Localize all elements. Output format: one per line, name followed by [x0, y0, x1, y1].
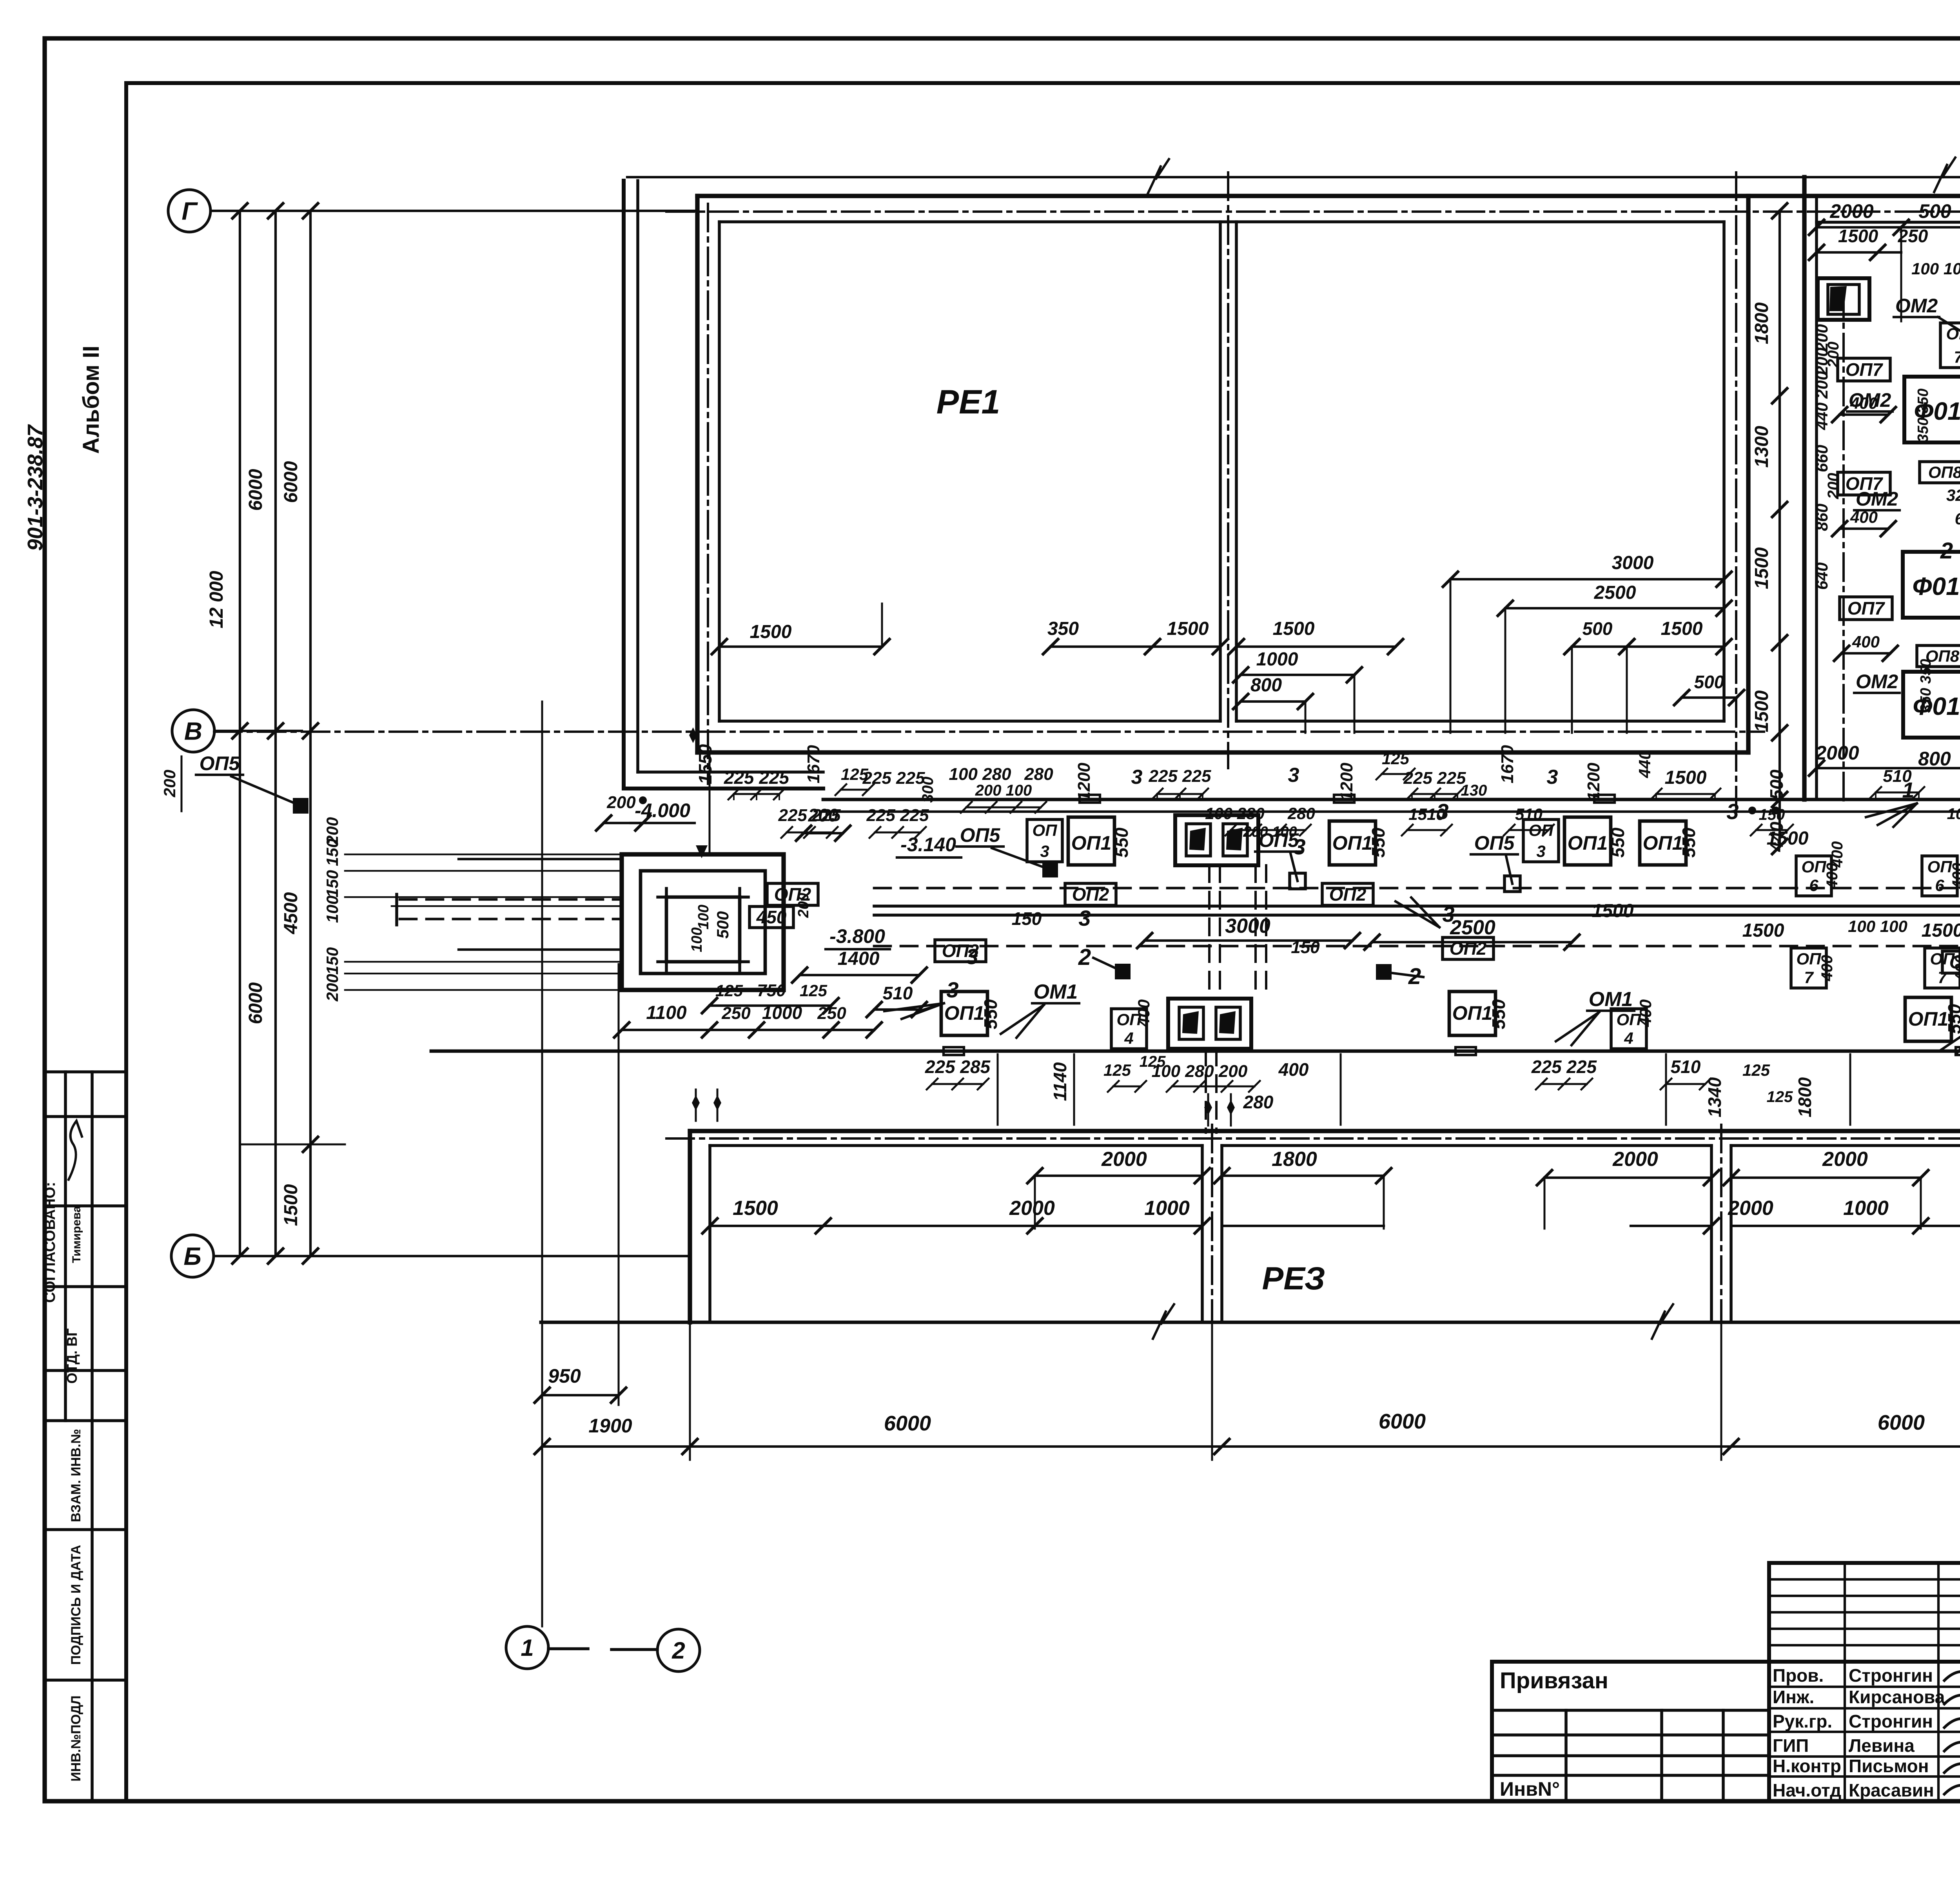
svg-text:РЕ1: РЕ1 — [936, 383, 1000, 421]
svg-text:125: 125 — [1382, 749, 1410, 768]
svg-text:3: 3 — [1078, 906, 1091, 930]
svg-text:1500: 1500 — [281, 1184, 301, 1226]
svg-text:350 350: 350 350 — [1915, 388, 1931, 442]
svg-text:1500: 1500 — [750, 622, 792, 642]
svg-text:200: 200 — [1825, 473, 1842, 500]
svg-text:6000: 6000 — [245, 469, 266, 511]
svg-text:200 100: 200 100 — [975, 782, 1032, 799]
svg-text:1800: 1800 — [1795, 1077, 1815, 1117]
svg-text:640: 640 — [1813, 562, 1831, 590]
svg-text:4: 4 — [1124, 1029, 1133, 1047]
svg-text:130: 130 — [1461, 782, 1487, 799]
svg-text:2000: 2000 — [1822, 1148, 1868, 1171]
svg-text:550: 550 — [1608, 827, 1628, 857]
svg-text:350: 350 — [1047, 618, 1079, 639]
svg-text:150: 150 — [323, 947, 341, 975]
svg-text:Красавин: Красавин — [1849, 1780, 1934, 1800]
svg-text:ОП: ОП — [1797, 950, 1822, 968]
svg-text:800: 800 — [1918, 748, 1951, 770]
svg-text:200: 200 — [323, 974, 341, 1002]
svg-text:200: 200 — [795, 893, 812, 918]
svg-text:1800: 1800 — [1751, 302, 1772, 344]
svg-text:1500: 1500 — [733, 1197, 778, 1220]
svg-text:2: 2 — [1078, 944, 1091, 970]
svg-text:1000: 1000 — [1843, 1197, 1889, 1220]
svg-text:510: 510 — [1515, 805, 1543, 823]
svg-text:500: 500 — [1918, 200, 1951, 222]
svg-text:1300: 1300 — [1751, 426, 1772, 468]
svg-text:280: 280 — [1024, 765, 1053, 784]
svg-text:500: 500 — [1766, 769, 1787, 799]
svg-text:СОГЛАСОВАНО:: СОГЛАСОВАНО: — [42, 1182, 58, 1303]
svg-text:510: 510 — [883, 983, 913, 1003]
svg-text:1500: 1500 — [1742, 920, 1784, 941]
svg-text:225 225: 225 225 — [1148, 767, 1211, 786]
svg-text:125: 125 — [800, 981, 828, 1000]
svg-text:ОМ2: ОМ2 — [1895, 295, 1938, 317]
svg-text:1500: 1500 — [1167, 618, 1209, 639]
svg-text:12 000: 12 000 — [206, 571, 227, 628]
svg-text:1200: 1200 — [1074, 763, 1094, 801]
svg-text:440: 440 — [1635, 750, 1654, 778]
svg-text:100 280: 100 280 — [1205, 804, 1265, 823]
svg-text:Рук.гр.: Рук.гр. — [1773, 1711, 1832, 1731]
svg-text:1340: 1340 — [1704, 1077, 1725, 1117]
svg-text:400: 400 — [1829, 841, 1846, 868]
svg-text:1670: 1670 — [1498, 745, 1517, 783]
svg-text:510: 510 — [1883, 767, 1912, 786]
svg-text:100 280: 100 280 — [949, 765, 1011, 784]
svg-text:225 225: 225 225 — [1531, 1057, 1597, 1077]
svg-text:500: 500 — [1583, 618, 1613, 639]
svg-text:6000: 6000 — [1878, 1411, 1925, 1434]
svg-text:ОТД. ВГ: ОТД. ВГ — [64, 1328, 80, 1383]
svg-text:500: 500 — [713, 911, 732, 939]
svg-text:125: 125 — [715, 981, 743, 1000]
svg-text:Инж.: Инж. — [1773, 1687, 1814, 1707]
svg-text:Письмон: Письмон — [1849, 1756, 1929, 1776]
svg-text:Ф01: Ф01 — [1912, 572, 1960, 600]
svg-text:1200: 1200 — [1337, 763, 1356, 801]
svg-text:ОМ2: ОМ2 — [1856, 671, 1898, 692]
svg-text:1500: 1500 — [1665, 767, 1707, 788]
svg-text:ОП1: ОП1 — [1452, 1002, 1493, 1024]
svg-text:3: 3 — [966, 944, 978, 969]
svg-text:2000: 2000 — [1728, 1197, 1773, 1220]
svg-text:1400: 1400 — [838, 948, 880, 969]
svg-text:200: 200 — [1825, 342, 1842, 368]
svg-text:6: 6 — [1809, 876, 1818, 894]
svg-text:Привязан: Привязан — [1500, 1668, 1608, 1693]
svg-text:500: 500 — [1694, 672, 1724, 692]
svg-text:550: 550 — [1488, 999, 1509, 1029]
svg-text:ОП1: ОП1 — [1332, 832, 1373, 854]
svg-text:300: 300 — [919, 777, 936, 803]
svg-text:225 285: 225 285 — [925, 1057, 991, 1077]
svg-text:2: 2 — [671, 1637, 685, 1664]
svg-text:Пров.: Пров. — [1773, 1665, 1824, 1686]
svg-text:2000: 2000 — [1815, 742, 1859, 764]
svg-text:225 225: 225 225 — [862, 769, 925, 788]
svg-text:550: 550 — [1679, 827, 1699, 857]
svg-text:ИнвN°: ИнвN° — [1500, 1778, 1560, 1800]
svg-text:2000: 2000 — [1009, 1197, 1055, 1220]
svg-text:3000: 3000 — [1225, 915, 1270, 937]
svg-text:60: 60 — [1955, 509, 1960, 528]
svg-text:950: 950 — [548, 1365, 581, 1387]
svg-text:1900: 1900 — [588, 1415, 632, 1437]
svg-text:100: 100 — [1947, 805, 1960, 823]
svg-text:7: 7 — [1938, 968, 1947, 986]
svg-text:7: 7 — [1804, 968, 1814, 986]
svg-text:1000: 1000 — [1144, 1197, 1190, 1220]
svg-text:100: 100 — [323, 896, 341, 923]
svg-text:1670: 1670 — [804, 745, 823, 783]
svg-text:6000: 6000 — [884, 1412, 931, 1435]
svg-text:1100: 1100 — [646, 1002, 687, 1023]
svg-text:ОП7: ОП7 — [1846, 359, 1884, 380]
svg-text:ОП2: ОП2 — [1072, 884, 1109, 905]
svg-text:450: 450 — [756, 907, 787, 927]
svg-text:400: 400 — [1278, 1059, 1309, 1080]
svg-text:Стронгин: Стронгин — [1849, 1711, 1933, 1731]
svg-text:400: 400 — [1952, 955, 1960, 982]
svg-text:100 100: 100 100 — [1911, 259, 1960, 278]
svg-text:200: 200 — [606, 793, 636, 812]
svg-text:100: 100 — [689, 927, 705, 952]
svg-text:3: 3 — [1547, 766, 1558, 789]
svg-text:125: 125 — [1767, 1088, 1793, 1106]
svg-text:225 225: 225 225 — [778, 806, 841, 825]
svg-text:125: 125 — [1103, 1061, 1131, 1079]
svg-text:6: 6 — [1935, 876, 1944, 894]
svg-text:901-3-238.87: 901-3-238.87 — [24, 424, 47, 551]
svg-text:Нач.отд: Нач.отд — [1773, 1780, 1841, 1800]
svg-text:150: 150 — [1012, 908, 1042, 929]
svg-text:Тимирева: Тимирева — [70, 1206, 83, 1263]
svg-text:Б: Б — [183, 1242, 201, 1270]
svg-text:ВЗАМ. ИНВ.№: ВЗАМ. ИНВ.№ — [69, 1429, 83, 1522]
svg-text:860: 860 — [1813, 504, 1831, 531]
svg-text:225 225: 225 225 — [866, 806, 929, 825]
svg-text:150: 150 — [323, 839, 341, 866]
svg-text:400: 400 — [1134, 999, 1153, 1027]
svg-text:ОП5: ОП5 — [960, 824, 1001, 846]
svg-text:550: 550 — [1368, 827, 1388, 857]
svg-text:550: 550 — [980, 999, 1001, 1029]
svg-text:РЕЗ: РЕЗ — [1262, 1261, 1325, 1296]
svg-text:ОМ2: ОМ2 — [1856, 488, 1898, 510]
svg-text:3: 3 — [1131, 766, 1143, 789]
svg-text:ОП1: ОП1 — [1908, 1008, 1949, 1030]
svg-text:250: 250 — [817, 1004, 846, 1023]
svg-text:125: 125 — [1742, 1061, 1770, 1079]
svg-text:ОМ2: ОМ2 — [1849, 389, 1891, 411]
svg-text:1500: 1500 — [1273, 618, 1315, 639]
svg-text:100 280 200: 100 280 200 — [1152, 1062, 1248, 1081]
svg-text:ОП1: ОП1 — [1568, 832, 1608, 854]
svg-text:3: 3 — [946, 977, 958, 1002]
svg-text:1550: 1550 — [695, 744, 715, 784]
svg-text:3: 3 — [1536, 842, 1545, 860]
svg-text:ОП5: ОП5 — [200, 752, 240, 774]
svg-text:6000: 6000 — [245, 982, 266, 1024]
svg-text:2000: 2000 — [1101, 1148, 1147, 1171]
svg-text:4500: 4500 — [281, 892, 301, 934]
svg-text:2500: 2500 — [1594, 582, 1636, 603]
svg-text:Г: Г — [181, 197, 198, 225]
svg-text:1140: 1140 — [1050, 1062, 1070, 1101]
svg-text:350 350: 350 350 — [1918, 659, 1934, 712]
svg-text:200: 200 — [160, 770, 179, 798]
svg-text:1500: 1500 — [1922, 920, 1960, 941]
svg-text:3: 3 — [1726, 799, 1739, 824]
svg-text:280: 280 — [1243, 1092, 1274, 1112]
svg-text:510: 510 — [1671, 1057, 1701, 1077]
svg-text:ОП: ОП — [1930, 950, 1955, 968]
svg-text:1: 1 — [521, 1635, 534, 1661]
svg-text:200: 200 — [1813, 371, 1831, 399]
svg-text:100: 100 — [695, 905, 712, 929]
svg-text:7: 7 — [1954, 348, 1960, 366]
svg-text:ОП1: ОП1 — [1071, 832, 1112, 854]
svg-text:2500: 2500 — [1450, 916, 1495, 939]
svg-text:ОП1: ОП1 — [944, 1002, 985, 1024]
svg-text:ГИП: ГИП — [1773, 1735, 1809, 1756]
svg-text:1000: 1000 — [1256, 649, 1298, 670]
svg-text:200 100: 200 100 — [1243, 824, 1297, 840]
svg-text:Альбом II: Альбом II — [78, 346, 104, 454]
svg-text:550: 550 — [1944, 1004, 1960, 1034]
svg-text:440: 440 — [1813, 402, 1831, 430]
svg-text:3: 3 — [1442, 902, 1454, 926]
svg-text:ОП5: ОП5 — [1474, 832, 1515, 854]
svg-text:ОП: ОП — [1802, 857, 1827, 876]
svg-text:ОП: ОП — [1033, 821, 1058, 839]
svg-text:400: 400 — [1852, 633, 1880, 651]
svg-text:800: 800 — [1250, 675, 1282, 696]
svg-text:ОП7: ОП7 — [1847, 598, 1886, 618]
svg-text:1500: 1500 — [1592, 901, 1634, 921]
svg-text:150: 150 — [1759, 806, 1785, 823]
svg-text:ИНВ.№ПОДЛ: ИНВ.№ПОДЛ — [69, 1695, 83, 1781]
svg-text:280: 280 — [1287, 804, 1315, 823]
svg-text:550: 550 — [1111, 827, 1132, 857]
svg-text:100 100: 100 100 — [1848, 917, 1907, 935]
svg-text:400: 400 — [1818, 955, 1836, 982]
svg-text:150: 150 — [1291, 938, 1320, 957]
svg-text:1500: 1500 — [1838, 226, 1878, 246]
svg-text:В: В — [184, 717, 202, 745]
svg-text:ОП2: ОП2 — [1329, 884, 1367, 905]
svg-text:4: 4 — [1624, 1029, 1633, 1047]
svg-text:1500: 1500 — [1661, 618, 1703, 639]
svg-text:3: 3 — [1040, 842, 1049, 860]
svg-text:400: 400 — [1949, 863, 1960, 890]
svg-text:250: 250 — [721, 1004, 751, 1023]
svg-text:2000: 2000 — [1829, 200, 1873, 222]
svg-text:150: 150 — [323, 870, 341, 897]
svg-text:325: 325 — [1946, 486, 1960, 504]
svg-text:Левина: Левина — [1849, 1735, 1915, 1756]
svg-text:400: 400 — [1636, 999, 1655, 1027]
svg-text:6000: 6000 — [281, 461, 301, 503]
svg-text:6000: 6000 — [1379, 1410, 1426, 1433]
svg-text:ОП: ОП — [1927, 857, 1953, 876]
svg-text:Стронгин: Стронгин — [1849, 1665, 1933, 1686]
svg-text:1500: 1500 — [1751, 547, 1772, 589]
svg-text:2: 2 — [1940, 538, 1953, 564]
svg-text:1500: 1500 — [1751, 690, 1772, 732]
svg-text:-3.140: -3.140 — [900, 834, 956, 856]
svg-text:2000: 2000 — [1612, 1148, 1658, 1171]
svg-text:Кирсанова: Кирсанова — [1849, 1687, 1945, 1707]
svg-text:3000: 3000 — [1612, 553, 1654, 573]
svg-text:ОМ1: ОМ1 — [1034, 981, 1078, 1003]
svg-text:1200: 1200 — [1584, 763, 1603, 801]
svg-text:-3.800: -3.800 — [829, 925, 885, 947]
svg-text:225 225: 225 225 — [724, 767, 790, 788]
svg-text:3: 3 — [1288, 764, 1299, 787]
svg-text:660: 660 — [1813, 445, 1831, 472]
svg-text:ОП1: ОП1 — [1643, 832, 1683, 854]
svg-text:1800: 1800 — [1272, 1148, 1317, 1171]
svg-text:ОП8: ОП8 — [1928, 463, 1960, 482]
svg-text:1510: 1510 — [1408, 805, 1445, 823]
svg-text:ПОДПИСЬ И ДАТА: ПОДПИСЬ И ДАТА — [69, 1545, 83, 1665]
svg-text:1000: 1000 — [762, 1002, 802, 1023]
svg-text:Н.контр: Н.контр — [1773, 1756, 1841, 1776]
svg-text:750: 750 — [757, 981, 786, 1000]
